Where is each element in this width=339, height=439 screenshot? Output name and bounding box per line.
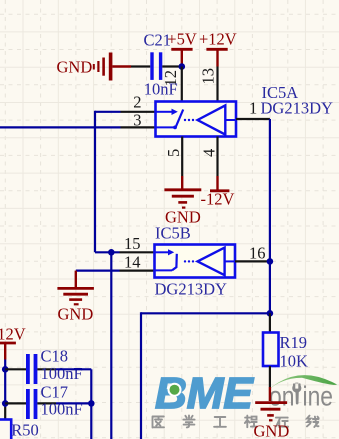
svg-text:100nF: 100nF bbox=[41, 364, 83, 383]
ground GND left of IC5B bbox=[57, 271, 94, 324]
node junction R19 bbox=[267, 310, 274, 317]
wire horizontal mid with branch down bbox=[141, 312, 270, 439]
pin 14 bbox=[120, 253, 155, 272]
capacitor C21 bbox=[131, 31, 182, 99]
svg-text:DG213DY: DG213DY bbox=[155, 280, 227, 299]
svg-text:C18: C18 bbox=[41, 347, 69, 366]
analog switch IC5A bbox=[156, 102, 237, 137]
watermark BME online logo bbox=[153, 369, 338, 428]
svg-text:5: 5 bbox=[164, 149, 183, 157]
node junction C21 +5V pin12 bbox=[179, 63, 186, 70]
ground GND top-left sideways bbox=[57, 53, 132, 81]
wire +12V rail down bbox=[4, 360, 6, 408]
svg-text:13: 13 bbox=[199, 68, 218, 85]
svg-text:14: 14 bbox=[124, 253, 141, 272]
wire pin1 down to R19 bbox=[269, 119, 271, 313]
svg-text:GND: GND bbox=[57, 58, 93, 77]
svg-text:GND: GND bbox=[58, 305, 94, 324]
power +12V bottom-left bbox=[0, 325, 26, 360]
power +5V bbox=[167, 30, 197, 67]
svg-text:R19: R19 bbox=[280, 333, 308, 352]
svg-text:+12V: +12V bbox=[0, 325, 26, 344]
pin 5 bbox=[164, 137, 183, 177]
node junction pin15 bbox=[108, 249, 115, 256]
capacitor C17 bbox=[5, 383, 82, 420]
pin 12 bbox=[161, 67, 182, 102]
pin 3 bbox=[121, 111, 156, 130]
pin 13 bbox=[199, 67, 218, 102]
pin 2 bbox=[121, 93, 156, 112]
svg-text:15: 15 bbox=[124, 234, 141, 253]
power -12V bbox=[201, 176, 235, 209]
power +12V bbox=[199, 30, 237, 67]
ground GND below IC5A bbox=[164, 176, 201, 227]
wire C18 to C17 junction bbox=[56, 369, 91, 403]
wire pin2 elbow down bbox=[95, 111, 121, 253]
pin 1 bbox=[236, 99, 270, 120]
svg-text:on: on bbox=[269, 381, 295, 412]
svg-text:12: 12 bbox=[161, 70, 180, 87]
wire C17 to junction and down bbox=[56, 402, 91, 404]
svg-text:+12V: +12V bbox=[199, 30, 237, 49]
svg-text:2: 2 bbox=[133, 93, 141, 112]
svg-text:DG213DY: DG213DY bbox=[261, 99, 333, 118]
pin 16 bbox=[235, 244, 270, 263]
wire down to bottom edge bbox=[90, 403, 92, 439]
node junction C17 right bbox=[88, 400, 95, 407]
svg-text:-12V: -12V bbox=[201, 190, 235, 209]
node junction C17 bbox=[2, 400, 9, 407]
svg-text:1: 1 bbox=[249, 99, 257, 118]
capacitor C18 bbox=[5, 347, 82, 385]
pin 15 bbox=[120, 234, 155, 253]
svg-text:+5V: +5V bbox=[167, 30, 197, 49]
ground GND below R19 bbox=[254, 387, 290, 439]
svg-text:10K: 10K bbox=[280, 352, 309, 371]
svg-text:16: 16 bbox=[249, 244, 266, 263]
svg-text:4: 4 bbox=[200, 149, 219, 157]
node junction C18 bbox=[2, 366, 9, 373]
wire junction down to bottom edge bbox=[110, 252, 112, 439]
pin 4 bbox=[200, 137, 219, 177]
svg-text:IC5B: IC5B bbox=[155, 224, 191, 243]
svg-text:GND: GND bbox=[254, 422, 290, 439]
resistor R19 bbox=[263, 313, 308, 387]
resistor R50 bbox=[0, 407, 39, 439]
node junction pin16 bbox=[267, 258, 274, 265]
wire pin3 net to left edge bbox=[0, 126, 121, 128]
svg-text:ine: ine bbox=[303, 381, 334, 412]
analog switch IC5B bbox=[155, 245, 236, 278]
svg-text:R50: R50 bbox=[11, 420, 39, 439]
svg-text:3: 3 bbox=[133, 111, 141, 130]
wire pin14 to ground bbox=[76, 270, 120, 272]
